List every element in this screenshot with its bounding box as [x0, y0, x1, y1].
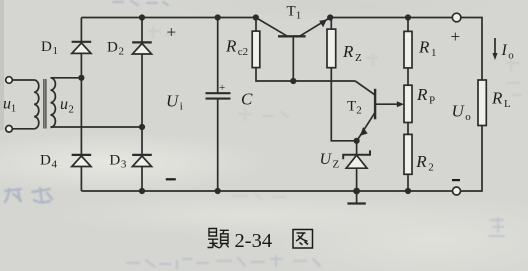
svg-text:c2: c2: [238, 46, 248, 58]
node bottom rail ground: [353, 188, 360, 195]
wire output top corner to RL: [461, 18, 482, 81]
svg-text:P: P: [429, 95, 435, 107]
terminal circle output minus: [453, 187, 461, 195]
node bottom rail C: [215, 188, 221, 194]
zener diode UZ: [343, 141, 370, 191]
resistor RZ top lead: [330, 18, 332, 30]
svg-text:3: 3: [121, 159, 127, 171]
transistor T1: [256, 18, 330, 82]
node bottom rail R2: [405, 188, 411, 194]
resistor Rc2: [252, 31, 260, 68]
wire input bottom lead: [12, 128, 34, 130]
wire RL bottom corner: [461, 126, 483, 192]
diode D3: [132, 155, 152, 167]
circuit drawing: [6, 13, 498, 203]
svg-text:1: 1: [431, 47, 437, 59]
svg-text:u: u: [60, 96, 68, 113]
svg-text:2: 2: [356, 105, 362, 117]
transistor T2: [355, 81, 404, 140]
node T2 emitter / zener: [354, 138, 360, 144]
svg-text:R: R: [415, 152, 427, 171]
transformer core: [44, 79, 46, 129]
wire RZ bottom to zener node: [331, 68, 356, 141]
svg-text:o: o: [465, 111, 471, 123]
capacitor C branch wire bottom: [217, 99, 219, 191]
svg-text:2: 2: [68, 104, 74, 116]
node top rail R1: [405, 14, 411, 20]
wire input top lead: [12, 79, 34, 81]
svg-text:R: R: [416, 85, 428, 104]
resistor R1: [404, 31, 412, 68]
wire Rp to R2: [407, 123, 409, 135]
node top rail D2: [139, 14, 145, 20]
node top rail Rc2/T1 collector: [253, 14, 259, 20]
wire bridge right column: [141, 18, 143, 192]
svg-text:R: R: [225, 37, 237, 56]
svg-text:+: +: [167, 23, 177, 42]
caption 题 2-34 图: [208, 229, 313, 253]
capacitor C plates: [206, 93, 231, 98]
label minus output: [452, 179, 460, 181]
svg-text:2: 2: [119, 46, 125, 58]
svg-text:U: U: [166, 92, 180, 111]
svg-text:2: 2: [428, 162, 434, 174]
wire secondary top to bridge AC1: [51, 77, 82, 79]
node top rail C: [215, 14, 221, 20]
node AC2: [139, 124, 145, 130]
svg-text:+: +: [451, 27, 461, 46]
caption character ti: [208, 229, 229, 248]
wire top rail right segment: [330, 17, 452, 19]
resistor R2: [404, 134, 412, 174]
svg-text:i: i: [180, 101, 183, 113]
svg-text:I: I: [501, 42, 508, 59]
svg-text:T: T: [287, 4, 296, 20]
svg-text:D: D: [107, 40, 118, 56]
potentiometer Rp: [404, 85, 412, 122]
transformer primary winding: [34, 80, 39, 129]
svg-text:o: o: [508, 50, 514, 62]
diode D4: [72, 155, 92, 167]
ground: [347, 191, 365, 204]
svg-text:T: T: [347, 99, 356, 115]
node AC1: [78, 75, 84, 81]
wire R2 bottom lead: [407, 174, 409, 191]
terminal circle input bottom: [6, 126, 13, 133]
svg-text:R: R: [418, 38, 430, 57]
svg-text:D: D: [41, 39, 52, 55]
diode D2: [132, 42, 152, 54]
label minus Ui: [166, 178, 176, 180]
svg-text:4: 4: [52, 159, 58, 171]
svg-text:2-34: 2-34: [235, 230, 273, 252]
node bottom rail D3: [139, 188, 145, 194]
diode D1: [72, 42, 92, 54]
terminal circle output plus: [452, 13, 461, 22]
resistor RL: [478, 80, 486, 126]
svg-text:Z: Z: [333, 159, 340, 171]
svg-text:R: R: [491, 89, 503, 108]
svg-text:D: D: [109, 153, 120, 169]
arrow Io: [492, 38, 497, 60]
svg-text:1: 1: [53, 45, 59, 57]
svg-text:Z: Z: [355, 52, 362, 64]
svg-text:1: 1: [11, 103, 16, 115]
transformer secondary winding: [51, 78, 56, 128]
svg-text:D: D: [40, 153, 51, 169]
terminal circle input top: [6, 77, 13, 84]
capacitor C branch wire top: [217, 18, 219, 94]
wire Rc2 bottom to T1 base node: [256, 68, 355, 81]
wire R1 to Rp: [407, 68, 409, 85]
svg-text:C: C: [241, 90, 253, 109]
svg-text:L: L: [504, 98, 511, 110]
svg-text:U: U: [452, 102, 466, 121]
resistor Rc2 branch top lead: [255, 18, 257, 32]
svg-text:U: U: [320, 151, 333, 168]
wire bottom rail: [81, 190, 452, 192]
resistor RZ: [327, 29, 336, 68]
svg-text:1: 1: [296, 10, 302, 22]
resistor R1 top lead + box: [407, 18, 409, 32]
caption character tu: [293, 230, 313, 249]
node top rail T1 emitter/RZ: [327, 14, 333, 20]
svg-text:R: R: [342, 42, 354, 61]
wire secondary bottom to bridge AC2: [51, 126, 143, 128]
node T1 base: [290, 78, 296, 84]
svg-text:u: u: [3, 96, 11, 113]
svg-text:+: +: [219, 82, 225, 94]
wire bridge left column: [81, 18, 255, 192]
